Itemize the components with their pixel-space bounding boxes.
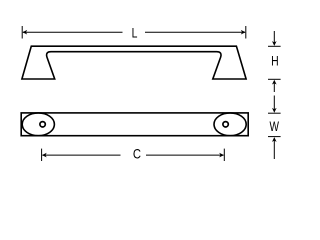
svg-text:H: H — [271, 53, 279, 69]
dimension C: line segments — [43, 154, 121, 156]
dimension C: arrowheads — [42, 153, 47, 158]
svg-text:C: C — [133, 147, 141, 162]
bottom view: left screw hole — [40, 122, 45, 127]
svg-text:W: W — [270, 119, 280, 135]
dimension H: top arrow with stem — [273, 31, 275, 44]
bottom view: left end ellipse — [22, 113, 54, 136]
dimension L: arrowheads — [22, 30, 27, 35]
bottom view: right screw hole — [223, 122, 228, 127]
bottom view: bar rectangle — [21, 113, 248, 136]
dimension C: extension ticks — [41, 149, 43, 161]
dimension L: extension ticks — [21, 26, 23, 39]
svg-text:L: L — [132, 25, 138, 41]
dimension H: bottom arrow with stem — [268, 78, 281, 80]
dimension L: line segments — [23, 31, 123, 33]
handle side-view outline — [22, 46, 246, 79]
bottom view: right end ellipse — [214, 113, 246, 136]
dimension W: top arrow with stem — [273, 96, 275, 111]
dimension W: bottom arrow with stem — [268, 136, 281, 138]
